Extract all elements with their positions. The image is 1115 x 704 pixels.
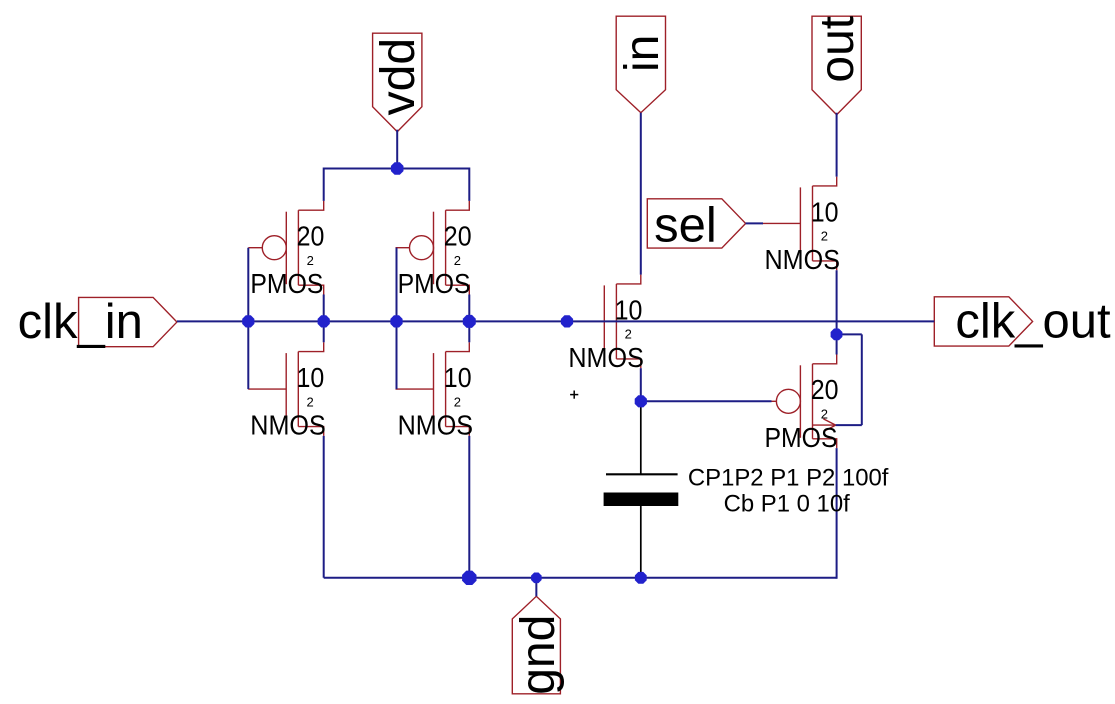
- wire out port to M6 drain: [836, 113, 838, 177]
- wire node inv1out to M3/M4 gates: [396, 248, 398, 322]
- wire clk_in node to M2 gate: [247, 321, 249, 389]
- svg-text:PMOS: PMOS: [765, 422, 838, 453]
- svg-text:NMOS: NMOS: [398, 410, 474, 441]
- svg-text:2: 2: [821, 229, 828, 244]
- port out: [812, 16, 861, 115]
- wire vdd rail to M1 source: [323, 168, 325, 201]
- svg-text:10: 10: [444, 362, 472, 393]
- wire M3/M4 gate stem down: [396, 321, 398, 389]
- port gnd: [512, 596, 560, 694]
- capacitor bottom lead: [640, 506, 642, 578]
- svg-text:2: 2: [454, 394, 461, 409]
- svg-text:sel: sel: [654, 198, 717, 252]
- svg-text:Cb P1 0 10f: Cb P1 0 10f: [724, 490, 851, 517]
- capacitor CP1P2/Cb top lead: [640, 401, 642, 474]
- transistor M6 (NMOS): [762, 177, 836, 271]
- junction main line node at M5: [561, 315, 573, 327]
- junction node P1: [635, 395, 647, 407]
- wire sel port to M6 gate: [746, 222, 763, 224]
- junction clk_out branch node: [831, 328, 843, 340]
- svg-text:20: 20: [297, 221, 325, 252]
- wire M7 bulk link horizontal: [836, 424, 862, 426]
- junction vdd rail node: [391, 162, 404, 175]
- wire clk_in node to M1 gate: [247, 248, 249, 322]
- junction gnd port node: [531, 573, 542, 584]
- wire vdd rail to M3 source: [468, 168, 470, 201]
- wire gnd rail: [324, 577, 837, 579]
- svg-text:NMOS: NMOS: [765, 244, 841, 275]
- svg-text:PMOS: PMOS: [398, 268, 471, 299]
- svg-text:2: 2: [454, 253, 461, 268]
- svg-text:CP1P2 P1 P2 100f: CP1P2 P1 P2 100f: [688, 465, 889, 492]
- wire M1 drain to node inv1out: [323, 295, 325, 322]
- svg-text:10: 10: [811, 196, 839, 227]
- svg-text:vdd: vdd: [372, 38, 425, 115]
- wire M7 bulk link vertical: [861, 334, 863, 425]
- svg-text:2: 2: [625, 327, 632, 342]
- port sel: [647, 199, 745, 248]
- junction inv1 output node: [318, 315, 330, 327]
- port vdd: [373, 33, 422, 132]
- junction gnd rail node at capacitor: [635, 572, 647, 584]
- wire vdd rail: [324, 168, 470, 170]
- svg-text:clk_in: clk_in: [18, 295, 143, 349]
- capacitor top plate: [606, 473, 678, 475]
- wire M7 source to gnd rail: [836, 448, 838, 579]
- wire M3 drain to node inv2out: [468, 295, 470, 322]
- wire clk_in to clk_out main line: [177, 320, 934, 322]
- svg-text:2: 2: [307, 394, 314, 409]
- wire M5 source to node P1: [640, 368, 642, 401]
- svg-text:2: 2: [821, 407, 828, 422]
- wire M6 source to M7 drain: [836, 270, 838, 354]
- svg-text:NMOS: NMOS: [250, 410, 325, 441]
- svg-text:20: 20: [811, 374, 839, 405]
- wire M7 bulk link to clk_out node: [837, 333, 862, 335]
- svg-text:PMOS: PMOS: [250, 268, 323, 299]
- wire node inv2out to M4 drain: [468, 321, 470, 342]
- svg-text:NMOS: NMOS: [568, 342, 644, 373]
- wire node P1 to M7 gate: [641, 400, 772, 402]
- transistor M4 (NMOS): [396, 342, 470, 436]
- port clk_out: [934, 297, 1032, 346]
- capacitor bottom plate: [604, 493, 679, 507]
- wire gnd rail to gnd port: [535, 578, 537, 597]
- transistor M1 (PMOS): [248, 201, 323, 295]
- svg-text:out: out: [811, 16, 864, 83]
- port clk_in: [79, 297, 177, 346]
- junction inv2 output node: [463, 315, 476, 328]
- bulk + annotation of M5: [570, 391, 578, 399]
- wire M4 source to gnd rail: [468, 436, 470, 578]
- svg-text:10: 10: [297, 362, 325, 393]
- svg-text:2: 2: [307, 253, 314, 268]
- wire node inv1out to M2 drain: [323, 321, 325, 342]
- junction gnd rail node at M4: [462, 571, 476, 585]
- transistor M7 (PMOS): [762, 355, 836, 449]
- wire vdd stem: [396, 130, 398, 169]
- junction clk_in / gate node: [242, 315, 254, 327]
- transistor M5 (NMOS): [566, 275, 641, 369]
- svg-text:clk_out: clk_out: [955, 295, 1111, 349]
- junction inv2 gate node: [390, 315, 402, 327]
- svg-text:in: in: [616, 35, 669, 72]
- transistor M3 (PMOS): [396, 201, 470, 295]
- svg-text:gnd: gnd: [512, 615, 565, 695]
- port in: [616, 16, 665, 113]
- wire M2 source to gnd rail: [323, 436, 325, 578]
- wire in port to M5 drain: [640, 113, 642, 275]
- transistor M2 (NMOS): [248, 342, 324, 436]
- svg-text:20: 20: [444, 221, 472, 252]
